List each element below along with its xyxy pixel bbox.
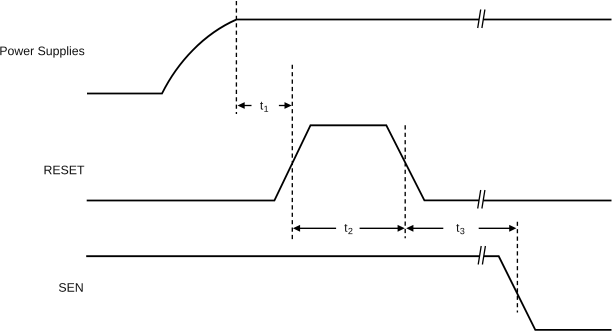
dashed line at power-good instant (t1 start) [235,1,237,114]
arrow t2 left (points left to second dashed line) [293,225,336,232]
dashed line at SEN fall (t3 end) [516,222,518,313]
break symbol on RESET line [478,190,485,209]
arrow t2 right (points right to third dashed line) [360,225,405,232]
dashed line at RESET rise (t1 end / t2 start) [291,65,293,241]
label t3 [456,224,464,234]
signal Power Supplies waveform (low, rise curve, high) [87,20,479,94]
label Power Supplies [0,46,84,57]
arrow t1 right (points right to second dashed line) [279,102,292,109]
break symbol on Power Supplies line [478,10,485,29]
signal SEN waveform (high after break, fall, low) [484,256,612,330]
arrow t3 left (points left to third dashed line) [406,225,443,232]
arrow t3 right (points right to fourth dashed line) [479,225,517,232]
label t2 [344,224,352,234]
signal RESET waveform (low, rise, high pulse, fall, low) [87,125,480,200]
arrow t1 left (points left to first dashed line) [238,102,252,109]
label t1 [260,102,268,112]
signal SEN waveform (high before break) [86,255,479,257]
label RESET [45,166,85,175]
wire RESET low line after break [484,200,612,202]
break symbol on SEN line [478,246,485,265]
label SEN [59,283,83,292]
wire Power Supplies high line after break [484,19,612,21]
dashed line at RESET fall (t2 end / t3 start) [404,125,406,238]
